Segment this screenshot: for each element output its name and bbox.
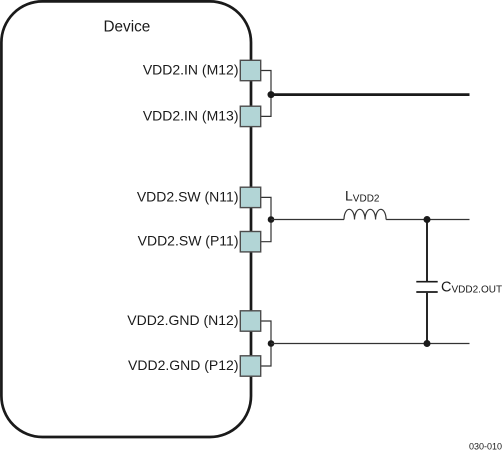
device outline (1, 1, 251, 437)
wire: capacitor bottom lead (426, 293, 428, 344)
svg-text:VDD2.GND (N12): VDD2.GND (N12) (127, 312, 238, 328)
node: VDD2.IN junction (268, 91, 275, 98)
pin VDD2.IN (M12) (143, 60, 261, 80)
node: VDD2.OUT bottom (424, 340, 431, 347)
pin VDD2.GND (N12) (127, 311, 260, 331)
svg-text:VDD2.SW (N11): VDD2.SW (N11) (137, 188, 239, 204)
inductor L_VDD2 (344, 209, 386, 219)
svg-text:LVDD2: LVDD2 (345, 187, 380, 204)
wire: VDD2.IN output (bold) (271, 93, 470, 96)
pin VDD2.GND (P12) (128, 356, 261, 376)
svg-text:VDD2.SW (P11): VDD2.SW (P11) (138, 233, 239, 249)
wire: VDD2.IN pin jogs to junction (261, 71, 271, 117)
svg-text:VDD2.IN (M13): VDD2.IN (M13) (143, 107, 239, 123)
wire: VDD2.SW pin jogs to junction (261, 197, 271, 241)
wire: capacitor top lead (426, 220, 428, 282)
capacitor C_VDD2.OUT (416, 282, 437, 292)
svg-text:030-010: 030-010 (469, 442, 502, 451)
wire: VDD2.GND pin jogs to junction (261, 321, 271, 366)
svg-text:Device: Device (104, 18, 151, 35)
pin VDD2.IN (M13) (143, 106, 261, 126)
pin VDD2.SW (N11) (137, 187, 261, 207)
pin VDD2.SW (P11) (138, 232, 261, 252)
svg-text:VDD2.GND (P12): VDD2.GND (P12) (128, 357, 238, 373)
svg-text:CVDD2.OUT: CVDD2.OUT (441, 280, 502, 296)
wire: junction to inductor (271, 219, 344, 221)
wire: inductor to output node (386, 219, 469, 221)
node: VDD2.GND junction (268, 340, 275, 347)
svg-text:VDD2.IN (M12): VDD2.IN (M12) (143, 61, 239, 77)
node: VDD2.OUT top (424, 216, 431, 223)
wire: ground return (271, 343, 470, 345)
node: VDD2.SW junction (268, 216, 275, 223)
